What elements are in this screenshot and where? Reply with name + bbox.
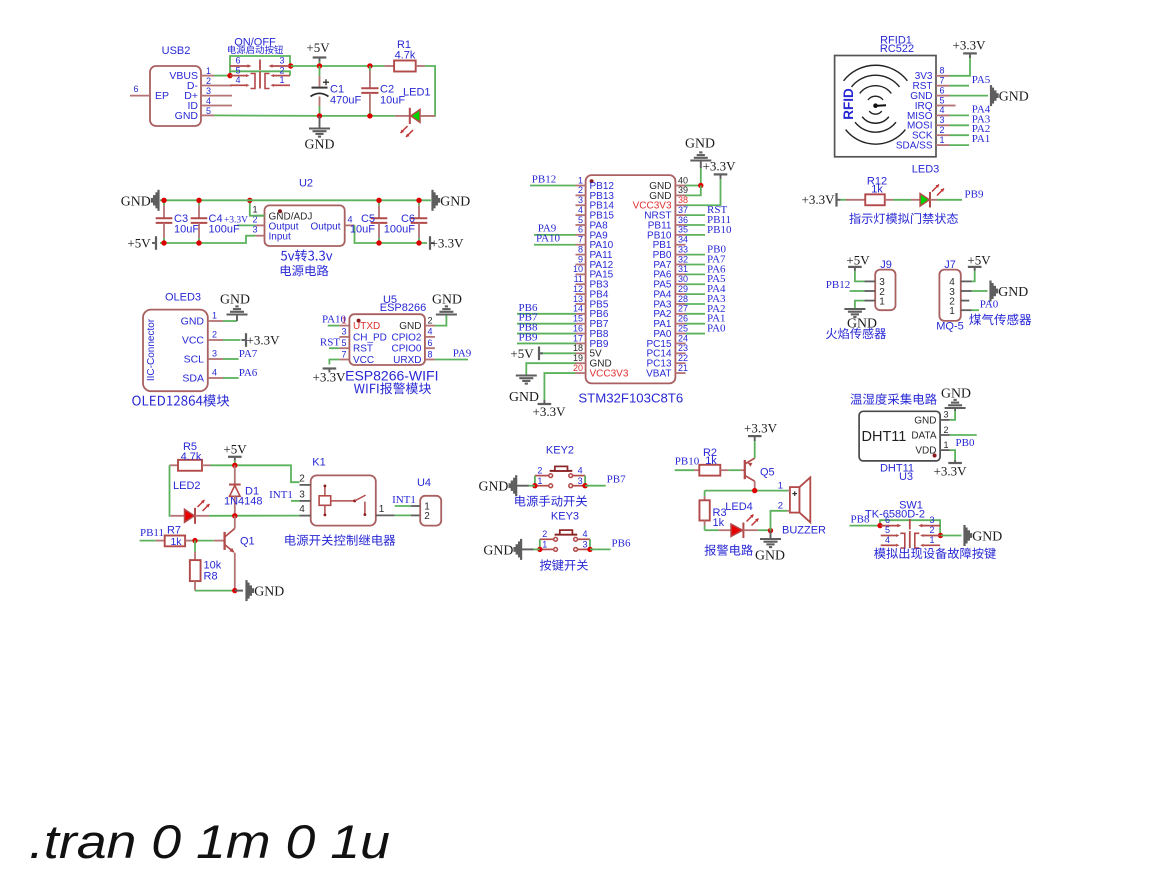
svg-text:Input: Input	[269, 232, 291, 243]
U2 pin 1 GND/ADJ stub	[255, 215, 264, 217]
svg-text:1: 1	[379, 504, 385, 515]
wire U2 pin1 to GND rail	[250, 200, 265, 215]
J7 pin 1 stub	[961, 309, 972, 311]
STM32 pin 3 PB14	[576, 204, 586, 206]
ground symbol above OLED3 pin1 (inverted earth)	[236, 315, 238, 322]
J7 pin 2 stub	[961, 300, 970, 302]
svg-text:5: 5	[940, 95, 945, 105]
svg-text:PA1: PA1	[972, 133, 991, 145]
resistor R1 4.7k	[384, 65, 394, 67]
svg-text:5: 5	[885, 525, 890, 535]
key KEY2 contact circles	[549, 474, 553, 478]
switch SW1 left contact bracket	[900, 533, 905, 548]
svg-text:2: 2	[929, 525, 934, 535]
wire R2 to Q5 base	[728, 469, 740, 471]
svg-text:CH_PD: CH_PD	[353, 332, 387, 343]
RFID pin 8 3V3	[936, 75, 950, 77]
svg-text:5: 5	[206, 106, 211, 116]
GND flag left of KEY2	[515, 475, 517, 496]
STM32 pin 33 PB0	[675, 254, 685, 256]
svg-text:RFID: RFID	[841, 88, 856, 120]
title 煤气传感器	[969, 314, 1031, 326]
svg-text:DATA: DATA	[911, 431, 937, 442]
switch SW pin 6 line with arrow	[230, 65, 249, 67]
switch ON/OFF chinese label 电源启动按钮	[228, 45, 283, 54]
wire J7 pin4 to +5V	[972, 271, 975, 281]
wire Q5 collector node to buzzer pin1	[705, 490, 789, 492]
relay K1 box	[311, 475, 376, 525]
svg-text:GND: GND	[478, 479, 508, 494]
wire STM32 pin 33 to PB0	[686, 254, 706, 256]
wire STM32 pin 26 to PA1	[686, 323, 706, 325]
wire switch loop pins 5-6 vertical and top link	[230, 56, 290, 76]
svg-text:8: 8	[428, 349, 433, 359]
svg-text:2: 2	[542, 529, 547, 539]
STM32 pin 14 PB6	[576, 313, 586, 315]
junction Q1 emitter GND	[232, 588, 237, 593]
svg-text:PB6: PB6	[612, 537, 631, 549]
wire LED4 to GND node	[758, 529, 770, 531]
svg-text:23: 23	[678, 343, 688, 353]
K1 pin 1 stub	[376, 514, 395, 516]
wire STM32 pin 28 to PA3	[686, 303, 706, 305]
wire STM32 pin 36 to PB11	[686, 224, 706, 226]
STM32 pin 36 PB11	[675, 224, 685, 226]
svg-text:+3.3V: +3.3V	[703, 159, 737, 174]
ground symbol below STM32 pin19	[516, 374, 537, 376]
svg-text:3: 3	[929, 515, 934, 525]
U4 pin 1 stub	[411, 505, 421, 507]
OLED3 pin 2 VCC	[208, 339, 223, 341]
svg-text:1k: 1k	[705, 455, 717, 467]
RFID pin 4 MISO	[936, 114, 950, 116]
svg-text:LED3: LED3	[912, 164, 940, 176]
RFID pin 7 RST	[936, 85, 950, 87]
switch SW pin 2 line	[274, 75, 290, 77]
svg-text:LED4: LED4	[725, 501, 753, 513]
key KEY3 pin lines	[540, 538, 554, 540]
wire RFID pin to PA3	[950, 124, 970, 126]
RFID pin 5 IRQ	[936, 105, 950, 107]
title 火焰传感器	[826, 328, 886, 339]
svg-text:R7: R7	[167, 525, 181, 537]
U5 left pin 1 UTXD	[339, 325, 349, 327]
STM32 pin 15 PB7	[576, 323, 586, 325]
wire PB8 to STM32 pin 16	[517, 333, 576, 335]
svg-text:1: 1	[949, 306, 955, 317]
wire top GND rail	[160, 199, 431, 201]
junction at switch pin3 output	[288, 63, 293, 68]
resistor R12 1k	[846, 199, 865, 201]
wire K1 pin1 to U4 pin2	[395, 514, 411, 516]
svg-text:VCC: VCC	[182, 335, 205, 347]
svg-text:EP: EP	[155, 90, 169, 102]
STM32 pin 39 GND	[675, 194, 685, 196]
svg-text:LED2: LED2	[173, 480, 201, 492]
svg-text:GND: GND	[847, 316, 877, 331]
wire RFID RST to PA5	[950, 85, 970, 87]
svg-text:3: 3	[578, 195, 583, 205]
svg-text:8: 8	[578, 244, 583, 254]
wire PB7 to STM32 pin 15	[517, 323, 576, 325]
switch SW pin 3 line with arrow	[271, 65, 290, 67]
switch right contact bracket	[265, 74, 270, 89]
power +5V bar left	[155, 236, 157, 250]
buzzer pin 1 stub	[788, 490, 790, 492]
STM32 pin 7 PA10	[576, 244, 586, 246]
svg-text:VBAT: VBAT	[646, 368, 671, 379]
svg-text:+5V: +5V	[846, 253, 870, 268]
svg-text:+3.3V: +3.3V	[934, 464, 968, 479]
svg-text:GND: GND	[685, 136, 715, 151]
wire OLED3 GND pin to ground	[223, 320, 237, 322]
svg-text:27: 27	[678, 304, 688, 314]
svg-text:GND: GND	[254, 584, 284, 599]
power +3.3V bar above STM32 pin38	[720, 174, 722, 179]
junction at switch pin5 / VBUS	[227, 73, 232, 78]
capacitor C3 10uF	[163, 200, 165, 205]
wire DHT11 GND to ground	[950, 411, 955, 420]
STM32 pin 17 PB9	[576, 342, 586, 344]
svg-text:SDA/SS: SDA/SS	[896, 141, 933, 152]
STM32 pin 21 VBAT	[675, 372, 685, 374]
svg-text:1: 1	[542, 540, 547, 550]
svg-text:PA10: PA10	[536, 233, 561, 245]
svg-text:Q1: Q1	[240, 535, 255, 547]
svg-text:4: 4	[940, 105, 945, 115]
wire STM32 pin38 VCC3V3 to +3.3V	[686, 179, 721, 205]
svg-text:4: 4	[299, 504, 305, 515]
capacitor C5 10uF	[378, 200, 380, 205]
power +3.3V bar right	[429, 236, 431, 250]
svg-text:1: 1	[578, 175, 583, 185]
RFID pin 3 MOSI	[936, 124, 950, 126]
junction STM32 GND pins	[698, 183, 703, 188]
STM32 pin 10 PA15	[576, 273, 586, 275]
STM32 pin 38 VCC3V3	[675, 204, 685, 206]
K1 pin 2 stub	[300, 484, 311, 486]
wire U5 GND pin2 to ground	[435, 315, 447, 326]
svg-text:K1: K1	[312, 456, 325, 468]
ground symbol above DHT11 (inverted earth)	[954, 408, 956, 411]
svg-text:CPIO0: CPIO0	[391, 344, 421, 355]
key KEY2 right link wire	[584, 476, 586, 486]
svg-text:31: 31	[678, 264, 688, 274]
svg-text:1k: 1k	[871, 183, 883, 195]
svg-text:18: 18	[573, 343, 583, 353]
switch SW pin 1 line	[274, 84, 290, 86]
svg-text:3: 3	[940, 115, 945, 125]
switch center actuator bars	[259, 60, 261, 71]
svg-text:PB8: PB8	[851, 514, 870, 526]
svg-text:5: 5	[341, 338, 346, 348]
RFID antenna arcs	[868, 96, 883, 100]
svg-text:13: 13	[573, 294, 583, 304]
svg-text:10uF: 10uF	[174, 224, 199, 236]
wire GND to KEY3	[521, 548, 534, 550]
svg-text:34: 34	[678, 235, 688, 245]
svg-text:3: 3	[582, 540, 587, 550]
J7 pin 3 stub	[961, 290, 972, 292]
module U5 ESP8266 box	[349, 314, 425, 365]
OLED3 pin 4 SDA	[208, 377, 223, 379]
wire RFID pin to PA1	[950, 144, 970, 146]
title 电源开关控制继电器	[285, 534, 395, 546]
power +3.3V bar below STM32 pin20	[543, 400, 545, 404]
wire OLED3 SDA to PA6	[223, 377, 239, 379]
svg-text:2: 2	[778, 501, 783, 512]
svg-text:3: 3	[279, 56, 284, 66]
wire STM32 pin39 GND to junction	[686, 186, 701, 196]
U2 pin 4 stub (Output right)	[345, 224, 355, 226]
switch left contact bracket	[251, 74, 256, 89]
svg-text:Q5: Q5	[760, 466, 775, 478]
svg-text:U4: U4	[417, 477, 431, 489]
resistor R2 1k	[694, 469, 699, 471]
wire U2 pin4 to +3.3V rail	[355, 225, 428, 243]
wire PA9 to STM32 pin6	[534, 234, 576, 236]
svg-text:16: 16	[573, 323, 583, 333]
switch SW1 pin 4 line	[881, 544, 896, 546]
svg-text:SDA: SDA	[182, 373, 204, 385]
wire J9 pin3 to +5V	[855, 271, 865, 281]
svg-text:+3.3V: +3.3V	[802, 192, 836, 207]
J9 pin 1 stub	[865, 300, 876, 302]
svg-text:30: 30	[678, 274, 688, 284]
wire STM32 pin19 GND down to ground	[526, 363, 575, 375]
wire R1 to LED1 cathode	[420, 66, 435, 116]
svg-text:4: 4	[582, 529, 587, 539]
svg-text:7: 7	[578, 235, 583, 245]
svg-text:3: 3	[299, 489, 305, 500]
ground symbol below C1	[319, 116, 321, 129]
svg-text:PA9: PA9	[453, 348, 472, 360]
svg-text:5: 5	[235, 65, 240, 75]
svg-text:100uF: 100uF	[384, 224, 415, 236]
GND flag right of SW1	[963, 525, 965, 546]
svg-text:ESP8266-WIFI: ESP8266-WIFI	[345, 368, 438, 384]
svg-text:2: 2	[299, 473, 305, 484]
wire J7 pin3 to ground flag	[972, 290, 988, 292]
svg-text:9: 9	[578, 254, 583, 264]
svg-text:20: 20	[573, 363, 583, 373]
junction LED4-buzzer GND	[768, 528, 773, 533]
RFID IRQ stub extension	[950, 105, 956, 107]
connector J9 box	[875, 270, 895, 311]
svg-text:VCC3V3: VCC3V3	[590, 368, 629, 379]
svg-text:22: 22	[678, 353, 688, 363]
svg-text:+3.3V: +3.3V	[533, 404, 567, 419]
wire PB12 to STM32 pin1	[530, 185, 576, 187]
U5 pin1 marker dot	[357, 319, 361, 323]
junction SW1 pin2	[938, 533, 943, 538]
svg-text:GND: GND	[509, 389, 539, 404]
svg-text:24: 24	[678, 333, 688, 343]
wire GND to KEY2	[516, 485, 529, 487]
wire PA10 to U5 pin1	[328, 325, 340, 327]
LED LED4 (red)	[705, 529, 719, 531]
svg-text:6: 6	[428, 338, 433, 348]
wire PB9 to STM32 pin 17	[517, 342, 576, 344]
title 电源电路	[281, 265, 329, 276]
power +3.3V bar below DHT11	[954, 460, 956, 463]
wire GND rail from USB pin5 to LED1	[214, 114, 320, 117]
STM32 pin 12 PB4	[576, 293, 586, 295]
svg-text:GND: GND	[121, 193, 151, 208]
svg-text:1N4148: 1N4148	[224, 496, 263, 508]
wire STM32 pin20 VCC3V3 to +3.3V	[544, 373, 575, 400]
svg-text:PA6: PA6	[239, 367, 258, 379]
svg-text:PB9: PB9	[965, 189, 984, 201]
U5 right pin 4 CPIO2	[425, 336, 435, 338]
svg-text:10: 10	[573, 264, 583, 274]
net label INT1 at K1 pin3	[291, 500, 300, 502]
switch SW1 pin 5 line	[881, 535, 896, 537]
STM32 pin 28 PA3	[675, 303, 685, 305]
wire STM32 pin 35 to PB10	[686, 234, 706, 236]
svg-text:1k: 1k	[170, 536, 182, 548]
svg-text:3: 3	[212, 349, 217, 359]
svg-text:UTXD: UTXD	[353, 321, 380, 332]
svg-text:4: 4	[578, 465, 583, 475]
svg-text:GND: GND	[972, 529, 1002, 544]
STM32 pin 2 PB13	[576, 194, 586, 196]
wire PA10 to STM32 pin7	[534, 244, 576, 246]
GND flag left of KEY3	[520, 539, 522, 560]
switch SW1 pin 2 line	[924, 535, 941, 537]
resistor R8 10k vertical	[194, 541, 196, 552]
STM32 pin 35 PB10	[675, 234, 685, 236]
junction +5V rail at C1	[317, 63, 322, 68]
svg-text:470uF: 470uF	[330, 95, 361, 107]
J9 pin 2 stub	[865, 290, 876, 292]
wire U5 VCC pin7 to +3.3V	[329, 360, 339, 365]
USB2 pin 3 stub (D+)	[201, 95, 232, 97]
svg-text:1: 1	[879, 296, 885, 307]
junction KEY2 right	[582, 483, 587, 488]
wire PB8 to SW1	[849, 525, 880, 527]
svg-text:USB2: USB2	[162, 45, 191, 57]
U5 left pin 5 RST	[339, 347, 349, 349]
wire LED3 to PB9	[937, 199, 962, 201]
svg-text:3: 3	[944, 410, 949, 420]
svg-text:RST: RST	[320, 337, 340, 349]
power +5V at STM32 pin18	[540, 352, 576, 354]
title 5v转3.3v	[281, 249, 333, 261]
transistor Q1 NPN	[214, 540, 224, 542]
svg-text:4: 4	[212, 368, 217, 378]
STM32 pin 19 GND	[576, 362, 586, 364]
svg-text:PA10: PA10	[322, 314, 347, 326]
svg-text:1: 1	[778, 481, 783, 492]
switch SW1 pin 1 line	[924, 544, 941, 546]
connector USB2 box	[150, 66, 201, 126]
svg-text:PB12: PB12	[826, 279, 850, 291]
svg-text:VCC: VCC	[353, 355, 374, 366]
STM32 pin 5 PA8	[576, 224, 586, 226]
wire U5 URXD pin8 to PA9	[435, 359, 468, 361]
title 报警电路	[705, 544, 753, 555]
svg-text:INT1: INT1	[392, 494, 416, 506]
wire switch inner link pins 5-2	[230, 71, 290, 75]
svg-text:TK-6580D-2: TK-6580D-2	[865, 508, 925, 520]
RFID pin 2 SCK	[936, 134, 950, 136]
svg-text:PA7: PA7	[239, 348, 258, 360]
svg-text:6: 6	[940, 85, 945, 95]
wire R5 to K1 pin2	[211, 465, 300, 482]
svg-text:ESP8266: ESP8266	[380, 302, 426, 314]
wire VBUS to switch pin5	[214, 75, 230, 77]
junction R7-R8-base	[192, 538, 197, 543]
RFID pin 6 GND	[936, 95, 950, 97]
connector J7 box	[939, 270, 960, 321]
U2 pin1 marker dot	[278, 209, 282, 213]
title WIFI报警模块	[354, 382, 431, 394]
svg-text:PA0: PA0	[707, 323, 726, 335]
ground symbol below J9	[844, 308, 865, 310]
STM32 pin 40 GND	[675, 185, 685, 187]
STM32 pin 9 PA12	[576, 263, 586, 265]
wire J9 pin2 to PB12	[850, 290, 865, 292]
svg-text:GND: GND	[399, 321, 421, 332]
svg-text:2: 2	[537, 465, 542, 475]
STM32 pin 13 PB5	[576, 303, 586, 305]
svg-text:10uF: 10uF	[350, 224, 375, 236]
K1 coil symbol	[324, 485, 326, 516]
svg-text:5: 5	[578, 215, 583, 225]
wire STM32 pin 37 to RST	[686, 214, 706, 216]
LED3 emission arrows	[932, 185, 939, 192]
svg-text:1: 1	[279, 75, 284, 85]
wire J7 pin1 to PA0	[972, 309, 980, 311]
wire SW1 link pins 6-3	[880, 520, 940, 535]
svg-text:7: 7	[940, 76, 945, 86]
svg-text:PB12: PB12	[532, 174, 556, 186]
wire STM32 pin 32 to PA7	[686, 263, 706, 265]
key KEY2 button cap	[550, 470, 573, 472]
wire RFID pin to PA2	[950, 134, 970, 136]
ground symbol below buzzer	[770, 531, 772, 539]
buzzer symbol	[790, 487, 800, 512]
STM32 pin 31 PA6	[675, 273, 685, 275]
title OLED12864模块	[132, 394, 229, 406]
svg-text:GND: GND	[220, 292, 250, 307]
STM32 pin 4 PB15	[576, 214, 586, 216]
LED1 emission arrows	[401, 126, 408, 133]
svg-text:.tran 0 1m 0 1u: .tran 0 1m 0 1u	[29, 815, 390, 868]
diode D1 1N4148	[234, 465, 236, 484]
svg-text:14: 14	[573, 304, 583, 314]
svg-text:PA0: PA0	[980, 299, 999, 311]
STM32 pin 32 PA7	[675, 263, 685, 265]
svg-text:GND: GND	[175, 110, 199, 122]
svg-text:6: 6	[885, 515, 890, 525]
svg-text:26: 26	[678, 314, 688, 324]
power +3.3V bar below U5 pin7	[323, 367, 337, 369]
svg-text:STM32F103C8T6: STM32F103C8T6	[578, 391, 683, 406]
DHT11 pin1 marker dot	[933, 454, 937, 458]
wire R5 left to LED2 anode	[170, 465, 171, 516]
LED LED2 (red)	[171, 515, 185, 517]
LED4 emission arrows	[747, 515, 754, 522]
svg-text:R8: R8	[204, 571, 218, 583]
key KEY2 left link wire	[534, 476, 536, 486]
svg-text:4: 4	[206, 96, 211, 106]
resistor R3 1k vertical	[704, 491, 706, 496]
J7 pin 4 stub	[961, 280, 972, 282]
svg-text:4: 4	[885, 535, 890, 545]
USB2 pin 6 EP stub	[130, 95, 150, 97]
